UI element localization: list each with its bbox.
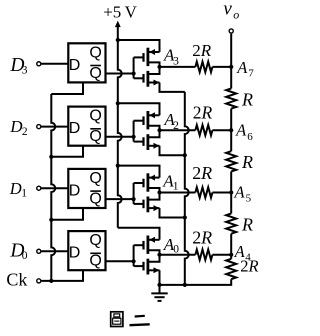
svg-text:Q: Q (89, 108, 101, 125)
wire Qbar FF to gates (stage 3) (106, 73, 134, 75)
svg-text:v: v (223, 0, 232, 20)
resistor 2R stage 2 (193, 102, 213, 135)
wire gate line stage 1 (134, 183, 144, 204)
wire D0 input (41, 250, 68, 252)
svg-text:+5 V: +5 V (103, 2, 137, 21)
wire R to A5 (230, 171, 232, 192)
node A6 (229, 120, 253, 143)
svg-text:D: D (69, 57, 81, 74)
wire 2R to A5 (212, 192, 231, 194)
transistor PMOS stage 1 (144, 173, 160, 192)
flip-flop U4 (D FF, bit 0) (68, 231, 105, 270)
wire R to A6 (230, 109, 232, 131)
junction gate node stage 1 (132, 197, 136, 201)
wire +5V feed stage 1 (118, 166, 160, 178)
node A1 (157, 172, 178, 195)
svg-text:D: D (69, 182, 81, 199)
junction +5V rail stage 1 feed (116, 164, 120, 168)
svg-text:0: 0 (22, 250, 28, 262)
svg-text:3: 3 (22, 64, 28, 76)
svg-text:3: 3 (173, 55, 179, 67)
svg-text:R: R (241, 90, 253, 110)
wire A3 to 2R (160, 66, 196, 68)
wire FF2 clock to rail (51, 146, 83, 157)
wire gate line stage 2 (134, 121, 144, 142)
transistor PMOS stage 2 (144, 111, 160, 130)
resistor R ladder 2 (226, 151, 253, 172)
svg-text:R: R (201, 102, 213, 122)
wire A5 to R (230, 193, 232, 214)
junction clock rail / FF2 clock (49, 155, 53, 159)
svg-text:R: R (241, 152, 253, 172)
junction ground rail / stage2 source (183, 153, 187, 157)
svg-text:R: R (241, 215, 253, 235)
svg-text:A: A (234, 242, 246, 261)
node A7 (229, 58, 254, 80)
wire A1 to 2R (160, 192, 196, 194)
wire +5V feed stage 2 (118, 103, 160, 115)
wire D2 input (41, 126, 68, 128)
svg-text:Q: Q (89, 170, 101, 187)
resistor 2R terminator (226, 255, 258, 280)
resistor 2R stage 0 (192, 228, 212, 260)
wire A2 to 2R (160, 129, 196, 131)
transistor NMOS stage 3 (144, 67, 160, 87)
ground rail (185, 92, 189, 285)
output terminal (229, 29, 233, 33)
svg-text:R: R (200, 41, 212, 60)
svg-text:2: 2 (192, 228, 201, 248)
wire 2R to A4 (212, 254, 231, 256)
wire terminator to bottom (160, 279, 232, 285)
svg-text:2: 2 (192, 163, 201, 183)
figure caption 圖二 (111, 312, 150, 327)
junction gate node stage 3 (132, 71, 136, 75)
junction ground rail / stage1 source (183, 215, 187, 219)
node A5 (229, 183, 252, 205)
wire D1 input (41, 187, 68, 189)
+5V rail (118, 25, 122, 228)
resistor 2R stage 1 (192, 163, 212, 198)
D input terminal D0 (9, 241, 40, 262)
junction clock rail / Ck wire (49, 279, 53, 283)
svg-text:D: D (69, 120, 81, 137)
wire +5V feed stage 3 (118, 40, 160, 52)
transistor PMOS stage 3 (144, 48, 160, 67)
wire Qbar FF to gates (stage 0) (106, 260, 134, 262)
wire Qbar FF to gates (stage 1) (106, 198, 134, 200)
D input terminal D2 (9, 117, 41, 138)
flip-flop U3 (D FF, bit 1) (68, 169, 105, 208)
D input terminal D1 (9, 179, 41, 199)
svg-text:5: 5 (246, 192, 252, 204)
svg-text:4: 4 (245, 251, 251, 263)
wire 2R to A7 (212, 66, 231, 68)
wire Qbar FF to gates (stage 2) (106, 136, 134, 138)
transistor NMOS stage 1 (144, 193, 160, 213)
wire A0 to 2R (160, 254, 196, 256)
svg-text:Q: Q (89, 128, 101, 145)
junction bottom wire / ground (157, 283, 161, 287)
junction +5V rail stage 3 feed (116, 38, 120, 42)
wire 2R to A6 (212, 129, 231, 131)
transistor PMOS stage 0 (144, 236, 160, 255)
svg-text:Q: Q (89, 253, 101, 270)
node A4 (229, 242, 251, 263)
D input terminal D3 (9, 55, 40, 77)
svg-text:2: 2 (193, 102, 202, 122)
junction +5V rail stage 2 feed (116, 101, 120, 105)
wire D3 input (41, 63, 68, 65)
flip-flop U2 (D FF, bit 2) (68, 107, 105, 146)
svg-text:D: D (9, 179, 22, 198)
wire A6 to R (230, 130, 232, 151)
resistor R ladder 3 (226, 214, 253, 235)
wire FF1 clock to rail (51, 208, 83, 220)
svg-text:Ck: Ck (6, 269, 27, 289)
junction gate node stage 2 (132, 135, 136, 139)
svg-text:R: R (200, 163, 212, 183)
svg-text:Q: Q (89, 65, 101, 82)
svg-text:Q: Q (89, 44, 101, 61)
wire gate line stage 0 (134, 245, 144, 266)
resistor 2R stage 3 (192, 41, 212, 72)
svg-text:1: 1 (173, 181, 179, 193)
svg-text:A: A (235, 120, 247, 139)
svg-text:6: 6 (247, 131, 253, 143)
wire A7 to R (230, 67, 232, 89)
svg-text:7: 7 (248, 68, 254, 80)
wire R to A4 (230, 234, 232, 255)
node A0 (157, 235, 179, 257)
ground symbol (151, 285, 167, 301)
transistor NMOS stage 0 (144, 255, 160, 275)
wire +5V feed stage 0 (118, 228, 160, 240)
Ck input terminal (6, 269, 40, 289)
svg-text:1: 1 (21, 187, 27, 199)
transistor NMOS stage 2 (144, 130, 160, 150)
node A3 (157, 45, 179, 69)
wire vo to A7 (230, 34, 232, 67)
junction ground rail / bottom wire (183, 283, 187, 287)
junction clock rail / FF1 clock (49, 218, 53, 222)
+5V supply symbol (103, 2, 137, 27)
wire Ck to FF0 clock (41, 270, 83, 281)
svg-text:o: o (233, 8, 239, 22)
wire gate line stage 3 (134, 57, 144, 78)
svg-text:A: A (234, 183, 246, 202)
wire NMOS source stage 3 to ground rail (160, 83, 185, 92)
node A2 (157, 110, 179, 132)
wire NMOS source stage 0 to ground (159, 270, 161, 285)
flip-flop U1 (D FF, bit 3) (68, 43, 105, 82)
wire NMOS source stage 1 to ground rail (160, 208, 185, 217)
junction gate node stage 0 (132, 259, 136, 263)
resistor R ladder 1 (226, 89, 253, 110)
output label vo (223, 0, 239, 22)
svg-text:2: 2 (192, 41, 201, 60)
wire NMOS source stage 2 to ground rail (160, 146, 185, 155)
svg-text:R: R (200, 228, 212, 248)
clock rail (51, 94, 55, 281)
svg-text:Q: Q (89, 232, 101, 249)
svg-text:D: D (69, 245, 81, 262)
svg-text:A: A (236, 58, 248, 77)
svg-text:Q: Q (89, 191, 101, 208)
svg-text:2: 2 (22, 126, 28, 138)
wire FF3 clock to rail (51, 82, 83, 94)
